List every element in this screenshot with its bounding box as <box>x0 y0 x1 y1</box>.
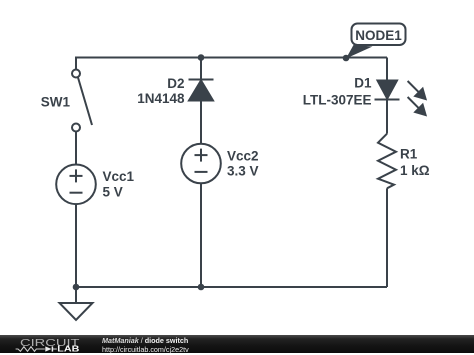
diode D2 <box>189 80 214 101</box>
wire Vcc1 to ground node <box>75 204 77 287</box>
svg-text:SW1: SW1 <box>41 95 71 110</box>
node NODE1 junction dot <box>343 55 350 62</box>
svg-text:3.3 V: 3.3 V <box>227 163 259 178</box>
wire D2 to Vcc2 <box>200 101 202 144</box>
svg-text:1 kΩ: 1 kΩ <box>400 163 430 178</box>
voltage source Vcc2 <box>181 144 221 184</box>
svg-text:LAB: LAB <box>57 345 79 354</box>
wire top rail <box>76 58 387 70</box>
wire switch to Vcc1 <box>75 132 77 165</box>
wire bottom rail <box>76 286 387 288</box>
svg-text:Vcc1: Vcc1 <box>103 169 135 184</box>
svg-text:Vcc2: Vcc2 <box>227 149 259 164</box>
footer bar <box>0 335 474 353</box>
LED D1 <box>375 81 426 116</box>
wire R1 to bottom rail <box>386 188 388 287</box>
svg-text:D1: D1 <box>354 76 372 91</box>
junction dot ground <box>73 284 80 291</box>
ground <box>60 287 93 320</box>
junction dot bottom middle <box>198 284 205 291</box>
wire right branch top <box>386 58 388 82</box>
wire Vcc2 to bottom rail <box>200 183 202 287</box>
CircuitLab logo <box>0 335 92 354</box>
svg-text:LTL-307EE: LTL-307EE <box>303 93 372 108</box>
switch SW1 blade <box>78 78 92 126</box>
resistor R1 <box>378 134 396 189</box>
svg-text:5 V: 5 V <box>103 184 123 199</box>
node NODE1 label <box>346 24 406 59</box>
junction dot top middle <box>198 54 205 61</box>
switch SW1 bottom terminal <box>72 124 80 132</box>
voltage source Vcc1 <box>56 165 96 205</box>
svg-text:NODE1: NODE1 <box>355 28 402 43</box>
svg-text:1N4148: 1N4148 <box>137 91 185 106</box>
switch SW1 top terminal <box>72 70 80 78</box>
wire D2 top stub <box>200 58 202 81</box>
wire LED to R1 <box>386 100 388 134</box>
credit text <box>102 336 189 353</box>
svg-text:D2: D2 <box>167 76 184 91</box>
svg-text:R1: R1 <box>400 147 418 162</box>
